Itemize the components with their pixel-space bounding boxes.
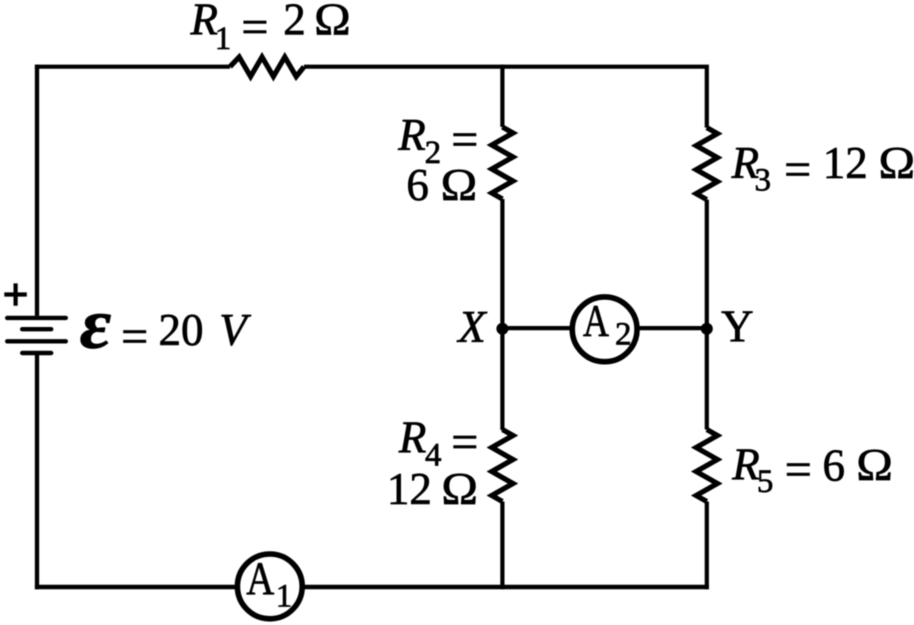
wire left lower (battery to bottom corner) xyxy=(35,353,39,589)
wire top middle branch xyxy=(500,65,504,127)
resistor R4 xyxy=(492,430,513,502)
svg-text:Ω: Ω xyxy=(441,464,478,514)
svg-text:12: 12 xyxy=(823,138,868,188)
battery plate short xyxy=(22,327,51,331)
resistor R1 xyxy=(230,57,304,77)
svg-text:1: 1 xyxy=(276,579,293,615)
node Y dot xyxy=(701,323,713,335)
wire A2 to Y xyxy=(638,326,707,330)
resistor R5 xyxy=(696,430,717,502)
svg-text:=: = xyxy=(785,444,812,497)
svg-text:6: 6 xyxy=(406,160,429,210)
svg-text:=: = xyxy=(241,1,268,54)
ammeter A1 circle xyxy=(237,554,302,619)
svg-text:Ω: Ω xyxy=(441,160,478,210)
svg-text:=: = xyxy=(451,416,478,469)
svg-text:A: A xyxy=(583,296,609,346)
battery plate short bottom (negative) xyxy=(22,351,51,355)
svg-text:20: 20 xyxy=(159,305,204,355)
svg-text:=: = xyxy=(784,143,811,196)
wire bottom left segment xyxy=(35,585,236,589)
wire bottom right segment xyxy=(304,585,709,589)
svg-text:=: = xyxy=(451,114,478,167)
svg-text:R: R xyxy=(398,413,427,463)
battery plate long top (positive) xyxy=(7,316,66,320)
svg-text:Y: Y xyxy=(721,302,754,352)
resistor R2 xyxy=(492,127,513,199)
battery plate long xyxy=(7,339,66,343)
svg-text:2: 2 xyxy=(615,317,632,353)
svg-text:V: V xyxy=(219,305,251,355)
svg-text:5: 5 xyxy=(757,464,774,500)
svg-text:Ω: Ω xyxy=(314,0,351,45)
svg-text:1: 1 xyxy=(215,21,232,57)
wire top right segment xyxy=(304,67,707,128)
wire left upper (top corner to battery) xyxy=(35,65,39,316)
svg-text:2: 2 xyxy=(283,0,306,45)
svg-text:6: 6 xyxy=(823,441,846,491)
svg-text:R: R xyxy=(397,110,426,160)
wire top left segment xyxy=(35,65,230,69)
svg-text:ε: ε xyxy=(80,284,112,364)
svg-text:12: 12 xyxy=(387,464,432,514)
ammeter A2 circle xyxy=(572,297,637,362)
resistor R3 xyxy=(696,128,717,200)
svg-text:R: R xyxy=(190,0,219,45)
svg-text:Ω: Ω xyxy=(856,440,893,490)
svg-text:3: 3 xyxy=(755,163,772,199)
wire right (R3 to Y to bottom corner) xyxy=(705,200,709,590)
svg-text:Ω: Ω xyxy=(879,138,914,188)
svg-text:A: A xyxy=(246,554,274,605)
wire middle bottom (R4 to bottom wire) xyxy=(500,502,504,590)
wire middle (R2 to X to R4) xyxy=(500,199,504,430)
node X dot xyxy=(496,323,508,335)
svg-text:=: = xyxy=(121,310,148,363)
svg-text:X: X xyxy=(456,302,487,352)
wire X to A2 xyxy=(502,326,572,330)
svg-text:R: R xyxy=(731,440,760,490)
battery plus sign xyxy=(4,283,27,305)
